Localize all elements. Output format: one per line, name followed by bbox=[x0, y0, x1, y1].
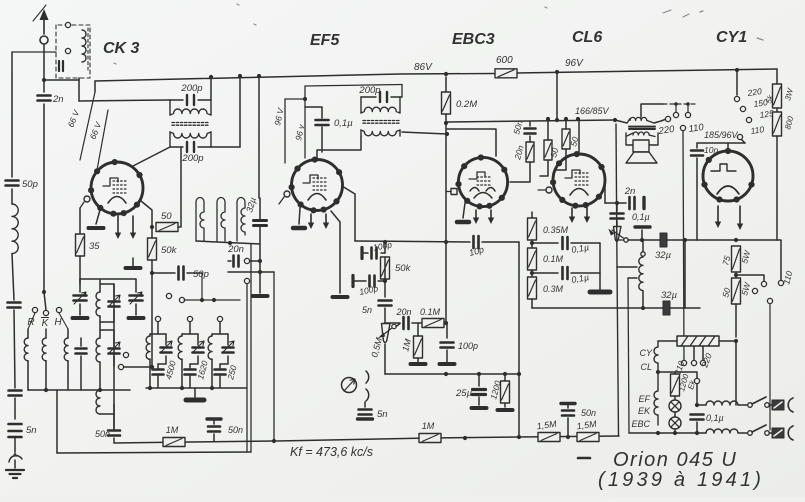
resistor 0.1M bbox=[528, 248, 537, 270]
wire bbox=[567, 418, 569, 437]
grid pin CL6 bbox=[546, 187, 552, 193]
wire bbox=[80, 338, 82, 346]
wire bbox=[675, 104, 677, 112]
capacitor 50n EBC3 bbox=[525, 129, 536, 134]
wire oscillator bottom bbox=[196, 241, 260, 244]
junction bbox=[640, 238, 644, 242]
wire bbox=[194, 388, 196, 397]
wire cathode EF5 b bbox=[299, 208, 300, 224]
terminal bar 2n bbox=[642, 198, 645, 209]
wire antenna lead bbox=[43, 45, 45, 92]
capacitor left bottom bbox=[9, 391, 22, 396]
capacitor 20n AF bbox=[404, 317, 409, 329]
wire bbox=[213, 434, 215, 441]
svg-text:CL: CL bbox=[640, 362, 652, 372]
coil padded 250 bbox=[208, 336, 212, 359]
wire tap link bbox=[641, 104, 663, 117]
ground divider bbox=[590, 290, 610, 295]
dash mark bbox=[578, 457, 590, 460]
wire riser x274 bbox=[273, 272, 275, 441]
wire bbox=[14, 398, 16, 419]
wire primary left bbox=[615, 120, 627, 123]
wire bbox=[735, 272, 737, 279]
wire bbox=[219, 376, 221, 388]
wire grid return bbox=[79, 208, 81, 233]
wire bbox=[658, 372, 675, 374]
wire bbox=[190, 356, 198, 364]
ground 1M bbox=[411, 362, 426, 366]
ground padder bbox=[186, 398, 204, 403]
contact padder bbox=[155, 316, 160, 321]
wire switch arm bbox=[44, 292, 46, 310]
heater arrow CL6 right bbox=[584, 208, 590, 223]
contact choke top bbox=[641, 252, 645, 256]
capacitor trimmer 4500 bbox=[161, 348, 172, 353]
resistor 0.3M bbox=[528, 277, 537, 299]
wire tap link dashed bbox=[663, 103, 697, 105]
contact tap 110 bbox=[737, 134, 742, 139]
contact band d bbox=[118, 364, 123, 369]
wire bbox=[99, 280, 101, 292]
coil RF 2c bbox=[96, 390, 100, 414]
wire bbox=[362, 252, 368, 254]
wire bbox=[617, 239, 626, 241]
junction bbox=[656, 370, 660, 374]
svg-text:EBC: EBC bbox=[631, 419, 650, 429]
heater arrow CY1 right bbox=[737, 206, 743, 230]
coil mains choke 1 bbox=[706, 401, 738, 405]
wire bbox=[99, 316, 101, 338]
junction bbox=[734, 238, 738, 242]
svg-text:35: 35 bbox=[89, 241, 100, 252]
capacitor 50p left rail bbox=[6, 181, 19, 186]
contact sel a bbox=[761, 281, 766, 286]
svg-text:5n: 5n bbox=[377, 409, 388, 420]
wire bbox=[219, 364, 221, 368]
junction bbox=[445, 132, 449, 136]
wire bbox=[777, 240, 781, 280]
wire rail top bbox=[12, 51, 56, 53]
svg-text:96V: 96V bbox=[565, 58, 584, 69]
capacitor 32u electrolytic c bbox=[663, 301, 670, 315]
ground EF5 b bbox=[293, 226, 305, 231]
wire top bus right bbox=[516, 69, 777, 73]
junction bbox=[530, 271, 534, 275]
wire bbox=[100, 310, 114, 322]
junction bbox=[555, 70, 559, 74]
resistor 50 5W bbox=[732, 278, 741, 304]
contact osc band b bbox=[179, 297, 184, 302]
wire tuning top bbox=[80, 278, 136, 280]
wire bbox=[504, 374, 506, 381]
coil band 1 bbox=[24, 338, 28, 361]
capacitor 50n a bbox=[108, 431, 120, 436]
wire bbox=[687, 104, 689, 112]
wire AVC line bbox=[355, 241, 470, 242]
wire plate CK3 to IFT1 bbox=[133, 147, 170, 166]
wire bbox=[67, 361, 69, 390]
svg-text:200p: 200p bbox=[358, 85, 380, 96]
junction bbox=[503, 372, 507, 376]
wire bbox=[384, 242, 386, 253]
capacitor padder 4500 bbox=[153, 370, 164, 375]
capacitor trimmer 1620 bbox=[193, 348, 204, 353]
wire mains tap drop bbox=[683, 131, 684, 360]
svg-text:200p: 200p bbox=[181, 153, 203, 164]
wire right rail bbox=[776, 136, 778, 240]
capacitor trimmer RF2 bbox=[109, 302, 120, 307]
speaker magnet bbox=[626, 133, 658, 145]
junction bbox=[517, 372, 521, 376]
terminal bar 2 bbox=[351, 276, 354, 287]
wire bbox=[445, 114, 447, 123]
heater arrow EBC3 left bbox=[473, 210, 479, 224]
capacitor 2n tone bbox=[630, 197, 635, 209]
wire bbox=[384, 257, 386, 279]
wire bbox=[599, 243, 601, 289]
wire bbox=[285, 98, 305, 100]
svg-text:86V: 86V bbox=[414, 62, 433, 73]
capacitor 32u electrolytic b bbox=[660, 233, 667, 247]
wire AVC line right bbox=[482, 241, 519, 243]
resistor 75 5W bbox=[732, 246, 741, 272]
wire bbox=[197, 334, 199, 345]
coil band 2 bbox=[42, 338, 46, 361]
wire pot bottom bbox=[384, 344, 386, 374]
oscillator coil 1 bbox=[196, 198, 204, 242]
ground cathode CK3 bbox=[89, 226, 104, 230]
wire riser x697 bbox=[696, 158, 698, 240]
wire bbox=[381, 252, 385, 254]
contact sel c bbox=[767, 298, 772, 303]
overline K bbox=[42, 317, 49, 319]
wire bbox=[532, 272, 558, 274]
wire 240 line bbox=[628, 239, 697, 241]
capacitor 5n AF bbox=[379, 301, 392, 306]
wire trimmer rail bbox=[113, 284, 115, 430]
svg-text:0.3M: 0.3M bbox=[543, 284, 564, 294]
junction bbox=[555, 118, 559, 122]
wire bbox=[531, 212, 533, 219]
contact spk 110 bbox=[680, 125, 685, 130]
capacitor 0.1u mains bbox=[691, 415, 704, 420]
contact mains tap bbox=[681, 360, 686, 365]
wire bbox=[417, 323, 419, 337]
coil padded 4500 bbox=[146, 336, 150, 359]
wire ballast left bbox=[658, 340, 677, 342]
tube CL6 bbox=[550, 151, 605, 209]
capacitor plate 50n b bbox=[207, 417, 221, 420]
junction bbox=[42, 290, 46, 294]
wire bbox=[99, 362, 101, 390]
svg-text:0.1M: 0.1M bbox=[543, 254, 564, 264]
wire bbox=[674, 429, 676, 433]
capacitor 100p c bbox=[441, 343, 454, 348]
wire bbox=[529, 121, 531, 126]
core (dashed) bbox=[87, 28, 89, 70]
junction bbox=[258, 259, 262, 263]
wire padder top bbox=[212, 333, 228, 335]
wire bbox=[11, 189, 13, 204]
wire bbox=[531, 240, 533, 249]
wire bbox=[412, 322, 422, 324]
junction bbox=[257, 74, 261, 78]
wire box left bbox=[56, 390, 58, 453]
connector 1 bbox=[772, 400, 784, 410]
svg-text:CY1: CY1 bbox=[716, 29, 747, 46]
wire bbox=[321, 127, 323, 152]
heater arrow CK3 right bbox=[130, 216, 136, 239]
capacitor 5n phono bbox=[359, 410, 372, 415]
wire bbox=[259, 198, 261, 220]
contact switch2 a bbox=[748, 431, 753, 436]
output transformer bbox=[627, 117, 655, 136]
contact link a bbox=[673, 112, 678, 117]
capacitor 20n osc bbox=[234, 256, 239, 267]
tube EBC3 bbox=[455, 154, 507, 209]
contact K bbox=[43, 310, 48, 315]
wire bbox=[151, 227, 153, 238]
wire bbox=[738, 404, 748, 406]
junction bbox=[735, 68, 739, 72]
contact link b bbox=[685, 112, 690, 117]
capacitor 0.1u tone bbox=[611, 214, 624, 219]
wire bbox=[67, 329, 69, 338]
svg-text:5n: 5n bbox=[26, 425, 37, 436]
svg-text:2n: 2n bbox=[624, 186, 636, 197]
wire left rail bbox=[11, 52, 13, 177]
wire band row bbox=[184, 299, 240, 301]
junction bbox=[210, 386, 214, 390]
wire choke tap b bbox=[628, 277, 637, 279]
svg-text:20n: 20n bbox=[227, 244, 244, 255]
wire to tap bbox=[741, 139, 745, 143]
wire IFT1 to B+ bbox=[211, 146, 240, 148]
svg-text:Kf = 473,6 kc/s: Kf = 473,6 kc/s bbox=[290, 445, 373, 459]
wire padder top bbox=[150, 333, 166, 335]
wire to IFT1 top bbox=[79, 100, 170, 101]
wire coil return bbox=[28, 389, 130, 391]
junction bbox=[673, 431, 677, 435]
junction bbox=[150, 225, 154, 229]
contact switch1 a bbox=[748, 403, 753, 408]
wire diode load bbox=[445, 123, 447, 323]
wire bbox=[384, 279, 386, 297]
svg-text:220: 220 bbox=[746, 86, 763, 98]
wire bbox=[567, 404, 569, 408]
wire riser x519 bbox=[518, 242, 520, 437]
junction bbox=[148, 386, 152, 390]
ground main bbox=[6, 470, 24, 478]
wire 96V feed a bbox=[284, 99, 286, 163]
contact switch1 b bbox=[765, 403, 770, 408]
wire bbox=[94, 81, 96, 92]
wire bbox=[189, 322, 191, 334]
heater arrow EBC3 right bbox=[488, 210, 494, 224]
oscillator coil 2 bbox=[217, 198, 225, 242]
wire bbox=[157, 322, 159, 334]
svg-text:5n: 5n bbox=[362, 305, 372, 315]
capacitor trimmer in box bbox=[59, 61, 63, 71]
junction bbox=[228, 241, 232, 245]
junction bbox=[695, 403, 699, 407]
resistor 1M a bbox=[163, 438, 185, 447]
junction bbox=[444, 321, 448, 325]
resistor 1M grid leak bbox=[414, 336, 423, 358]
wire bbox=[384, 308, 386, 323]
wire 66V a bbox=[80, 92, 95, 160]
wire padder bus bbox=[146, 387, 246, 389]
phono jack bbox=[342, 371, 369, 401]
wire bbox=[28, 313, 35, 329]
wire 66V b bbox=[97, 110, 108, 170]
svg-text:50p: 50p bbox=[193, 269, 209, 280]
capacitor 32u electrolytic bbox=[254, 221, 267, 226]
contact padder bbox=[217, 316, 222, 321]
wire 240 line right bbox=[697, 239, 777, 241]
junction bbox=[641, 306, 645, 310]
wire bbox=[417, 358, 419, 362]
tube CK3 bbox=[88, 159, 143, 217]
wire bbox=[478, 374, 480, 386]
ground 100p bbox=[440, 362, 455, 366]
capacitor 100p a bbox=[372, 248, 377, 259]
wire bbox=[565, 119, 567, 129]
wire bbox=[227, 334, 229, 345]
wire bbox=[124, 366, 152, 368]
wire bbox=[510, 162, 530, 182]
contact Ek bbox=[694, 378, 699, 383]
wire riser speaker-left bbox=[616, 124, 617, 267]
junction bbox=[444, 372, 448, 376]
svg-text:110: 110 bbox=[750, 124, 765, 136]
svg-text:32µ: 32µ bbox=[655, 250, 672, 261]
resistor 1M b bbox=[419, 434, 441, 443]
coil left rail choke bbox=[12, 204, 18, 254]
junction bbox=[258, 270, 262, 274]
svg-text:(1939 à 1941): (1939 à 1941) bbox=[598, 469, 764, 491]
wire IFT2 to detector bbox=[402, 132, 447, 134]
IF transformer 2 bbox=[361, 92, 402, 136]
wire to coupling coil bbox=[44, 79, 79, 81]
wire bottom return bbox=[532, 307, 643, 309]
wire bbox=[529, 136, 531, 142]
wire bbox=[642, 240, 644, 252]
svg-text:0,1µ: 0,1µ bbox=[334, 118, 353, 129]
wire IFT2 feed bbox=[305, 85, 402, 87]
capacitor 2n antenna bbox=[38, 96, 51, 101]
wire padder top bbox=[182, 333, 198, 335]
wire bbox=[532, 242, 558, 244]
contact ballast tap a bbox=[691, 360, 696, 365]
plug prong 2 bbox=[788, 426, 793, 440]
contact tap 150 bbox=[740, 106, 745, 111]
pickup arc bbox=[9, 456, 22, 462]
wire choke tap a bbox=[617, 266, 637, 268]
plug prong 1 bbox=[788, 398, 793, 412]
wire bbox=[100, 284, 114, 299]
svg-text:0.35M: 0.35M bbox=[543, 225, 569, 235]
capacitor 50n c bbox=[562, 411, 574, 416]
capacitor 10p bbox=[474, 236, 479, 248]
tube CY1 bbox=[701, 148, 754, 203]
wire bbox=[45, 361, 47, 390]
wire bbox=[157, 364, 159, 368]
wire bbox=[113, 404, 115, 428]
wire bbox=[213, 419, 215, 424]
wire bbox=[219, 322, 221, 334]
capacitor plate 50n c bbox=[561, 402, 575, 405]
junction bbox=[180, 386, 184, 390]
coil padded 1620 bbox=[178, 336, 182, 359]
junction bbox=[695, 431, 699, 435]
svg-text:50p: 50p bbox=[22, 179, 38, 190]
wire choke1 line bbox=[697, 404, 706, 406]
capacitor plate tone bbox=[635, 225, 650, 228]
capacitor 10n bbox=[691, 151, 703, 156]
junction bbox=[463, 436, 467, 440]
wire bbox=[151, 273, 153, 367]
junction bbox=[530, 241, 534, 245]
svg-text:CK 3: CK 3 bbox=[103, 40, 140, 57]
capacitor 0.1u b bbox=[563, 267, 568, 279]
junction bbox=[576, 117, 580, 121]
wire bbox=[165, 334, 167, 345]
coil antenna primary bbox=[82, 30, 86, 62]
wire bbox=[250, 260, 260, 262]
junction bbox=[566, 435, 570, 439]
junction bbox=[150, 271, 154, 275]
ground 25u bbox=[472, 406, 487, 410]
wire bbox=[478, 397, 480, 405]
ground tuning 1 bbox=[73, 316, 88, 320]
wire bbox=[27, 329, 29, 338]
trimmer arrow tune2 bbox=[130, 292, 142, 304]
wire cathode EF5 bbox=[331, 211, 340, 293]
wire bbox=[189, 376, 191, 388]
wire bbox=[736, 275, 764, 281]
wire wiper bbox=[396, 324, 400, 327]
wire bbox=[79, 279, 81, 292]
antenna bbox=[33, 5, 49, 44]
contact osc band a bbox=[166, 293, 171, 298]
contact tap 220 bbox=[734, 96, 739, 101]
wire bbox=[556, 149, 566, 170]
resistor 5k 3W bbox=[773, 84, 782, 108]
wire bbox=[696, 384, 698, 405]
wire bbox=[531, 270, 533, 278]
svg-text:EF5: EF5 bbox=[310, 32, 340, 49]
wire primary right bbox=[654, 120, 665, 124]
svg-text:600: 600 bbox=[496, 55, 513, 66]
wire antenna to switch bbox=[43, 104, 45, 292]
wire bbox=[605, 202, 617, 204]
contact switch2 b bbox=[765, 431, 770, 436]
resistor 50 a bbox=[544, 140, 552, 160]
wire bbox=[641, 230, 643, 240]
wire box right bbox=[250, 244, 252, 452]
svg-text:32µ: 32µ bbox=[661, 290, 678, 301]
contact band c bbox=[123, 352, 128, 357]
resistor 50k AF bbox=[381, 257, 390, 279]
junction bbox=[517, 435, 521, 439]
wire x736 down bbox=[735, 341, 737, 405]
switch 2 lever bbox=[752, 425, 766, 432]
wire riser x240 bbox=[239, 76, 241, 147]
wire bbox=[674, 412, 676, 417]
wire to speaker bbox=[531, 120, 615, 121]
wire bbox=[385, 322, 400, 324]
